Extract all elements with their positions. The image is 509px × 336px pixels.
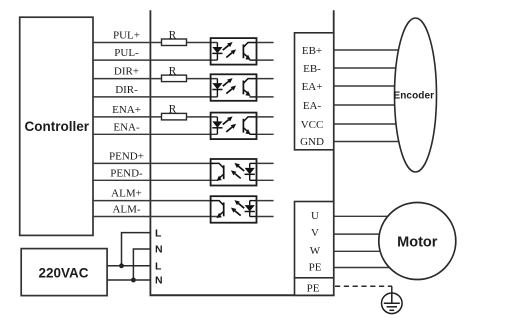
wire ALM- (93, 216, 218, 218)
wire EA- to encoder (334, 104, 410, 106)
svg-text:ENA-: ENA- (113, 121, 140, 133)
svg-text:L: L (155, 227, 162, 239)
svg-text:Controller: Controller (25, 119, 90, 134)
wire EB+ to encoder (334, 49, 410, 51)
wire VCC to encoder (334, 123, 410, 125)
svg-text:R: R (169, 65, 177, 77)
wire PEND+ (93, 162, 213, 164)
opto U1 emitter stub wire (257, 59, 274, 61)
svg-text:V: V (311, 227, 319, 239)
controller U-CTRL box (20, 17, 93, 235)
wire DIR+ (resistor to opto U2) (187, 78, 218, 80)
svg-text:GND: GND (300, 136, 324, 148)
svg-text:PEND-: PEND- (110, 167, 143, 179)
opto U2 emitter stub wire (257, 96, 274, 98)
PE earth terminal box (295, 278, 334, 296)
wire N (neutral to driver) (133, 249, 150, 280)
motor terminal block box (U V W PE) (295, 202, 334, 278)
svg-text:EA-: EA- (303, 100, 322, 112)
svg-text:PE: PE (307, 283, 320, 295)
opto U4 cathode stub wire (257, 179, 274, 181)
optocoupler U2 (DIR) (211, 74, 257, 101)
wire DIR- (93, 96, 217, 98)
wire ENA- (93, 133, 217, 135)
wire EB- to encoder (334, 67, 410, 69)
wire W to motor (334, 250, 400, 252)
opto U3 emitter stub wire (257, 133, 274, 135)
driver bottom edge (150, 294, 335, 296)
wire U to motor (334, 215, 400, 217)
svg-text:L: L (155, 261, 162, 273)
resistor R3 body (162, 113, 187, 120)
protective earth ground symbol (382, 293, 403, 314)
svg-text:U: U (311, 210, 319, 222)
svg-text:W: W (310, 245, 321, 257)
wire PUL+ (controller to resistor) (93, 42, 162, 44)
svg-text:EB+: EB+ (302, 45, 322, 57)
driver right edge (333, 10, 335, 295)
encoder terminal block box (295, 33, 334, 150)
wire ENA+ (resistor to opto U3) (187, 116, 218, 118)
opto U5 cathode stub wire (257, 216, 274, 218)
svg-text:N: N (155, 275, 163, 287)
svg-text:PUL+: PUL+ (113, 30, 140, 42)
220VAC source box (21, 249, 107, 296)
optocoupler U3 (ENA) (211, 113, 257, 140)
svg-text:PUL-: PUL- (114, 47, 139, 59)
svg-text:ALM+: ALM+ (111, 188, 142, 200)
wire L (phase to driver) (122, 233, 151, 266)
dashed earth wire vertical segment (391, 286, 393, 292)
svg-text:R: R (169, 29, 177, 41)
wire ALM+ (93, 200, 213, 202)
node N junction dot (131, 278, 136, 283)
wire GND to encoder (334, 141, 410, 143)
wire DIR+ (controller to resistor) (93, 78, 162, 80)
wire PE to motor (334, 267, 400, 269)
wire PUL- (93, 59, 217, 61)
wire EA+ to encoder (334, 85, 410, 87)
optocoupler U1 (PUL) (211, 38, 257, 65)
resistor R1 body (162, 39, 187, 46)
svg-text:DIR+: DIR+ (114, 66, 139, 78)
opto U1 collector stub wire (257, 42, 274, 44)
motor circle (379, 203, 456, 280)
wire L2 (220VAC live) (107, 265, 150, 267)
optocoupler U5 (ALM, mirrored) (211, 196, 257, 223)
svg-text:N: N (155, 244, 163, 256)
svg-text:ALM-: ALM- (112, 204, 140, 216)
wire V to motor (334, 233, 400, 235)
encoder ellipse (395, 18, 437, 172)
opto U2 collector stub wire (257, 78, 274, 80)
opto U3 collector stub wire (257, 116, 274, 118)
svg-text:Encoder: Encoder (393, 90, 434, 101)
optocoupler U4 (PEND, mirrored) (211, 159, 257, 186)
svg-text:ENA+: ENA+ (112, 104, 141, 116)
node L junction dot (119, 263, 124, 268)
opto U4 anode stub wire (257, 162, 274, 164)
svg-text:EB-: EB- (303, 63, 321, 75)
wire PEND- (93, 179, 218, 181)
driver left edge (149, 10, 151, 295)
svg-text:VCC: VCC (301, 119, 324, 131)
opto U5 anode stub wire (257, 200, 274, 202)
wire PUL+ (resistor to opto U1) (187, 42, 218, 44)
wire N2 (220VAC neutral) (107, 279, 150, 281)
svg-text:PE: PE (309, 262, 322, 274)
wire ENA+ (controller to resistor) (93, 116, 162, 118)
svg-text:PEND+: PEND+ (109, 151, 144, 163)
resistor R2 body (162, 75, 187, 82)
dashed earth wire from PE box (335, 285, 392, 287)
svg-text:R: R (169, 104, 177, 116)
svg-text:DIR-: DIR- (115, 84, 138, 96)
svg-text:220VAC: 220VAC (38, 266, 88, 281)
svg-text:Motor: Motor (397, 235, 438, 251)
svg-text:EA+: EA+ (302, 81, 323, 93)
